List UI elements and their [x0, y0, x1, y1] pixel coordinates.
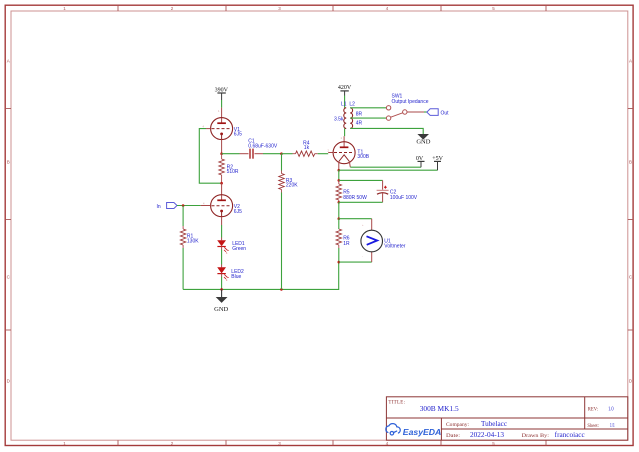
svg-text:100uF 100V: 100uF 100V	[390, 195, 418, 201]
voltmeter U1	[361, 230, 383, 252]
svg-text:GND: GND	[416, 139, 430, 146]
wire R4 to T1 grid	[318, 153, 329, 155]
wire V1 cathode to C1	[222, 153, 240, 155]
pin T1 filament right	[348, 162, 351, 168]
label R4 1k	[303, 141, 310, 152]
pin V2 cathode	[221, 217, 223, 225]
triode T1 300B	[333, 142, 355, 164]
svg-text:0.68uF-630V: 0.68uF-630V	[248, 143, 278, 149]
node junction R6 top	[338, 217, 341, 220]
label V2 6J5	[234, 204, 242, 215]
wire R5 bottom to C2 bottom	[339, 201, 383, 203]
wire SW1 pole to Out	[407, 111, 424, 113]
resistor R3	[279, 171, 284, 193]
label LED1 Green	[232, 241, 246, 252]
svg-text:Company:: Company:	[446, 422, 469, 428]
svg-text:3.5k: 3.5k	[334, 116, 344, 122]
svg-text:REV:: REV:	[588, 406, 599, 412]
node junction R2 bottom	[220, 182, 223, 185]
svg-text:B: B	[7, 160, 10, 165]
capacitor C2	[377, 180, 389, 202]
svg-text:L2: L2	[349, 102, 355, 108]
pin T1 grid	[328, 152, 333, 154]
frame column numbers top	[63, 6, 495, 11]
wire R6 bottom	[338, 248, 340, 262]
label C1 0.68uF-630V	[248, 139, 278, 150]
wire 390V to V1 plate	[221, 100, 223, 108]
frame ticks top	[118, 5, 546, 11]
svg-text:L1: L1	[341, 102, 347, 108]
svg-text:Tubelacc: Tubelacc	[481, 420, 507, 428]
wire R5 top to C2 top	[339, 179, 383, 181]
power flag 390V	[215, 87, 229, 100]
wire secondary top tap to SW1	[350, 107, 386, 109]
wire LED1 to LED2	[221, 250, 223, 265]
pin T1 filament left	[338, 162, 340, 171]
triode V2	[211, 195, 233, 217]
svg-text:420V: 420V	[338, 85, 352, 91]
label SW1 Output Ipedance	[392, 94, 429, 105]
svg-text:1.0: 1.0	[608, 407, 614, 413]
wire node to R4	[282, 153, 293, 155]
wire V2 cathode to LED1	[221, 225, 223, 238]
node junction rail GND	[220, 288, 223, 291]
wire R5 bottom down to R6	[338, 202, 340, 218]
svg-text:300B MK1.5: 300B MK1.5	[420, 404, 459, 413]
wire 420V to transformer primary	[344, 96, 346, 108]
wire node to R3	[281, 154, 283, 171]
wire secondary bottom tap to GND	[350, 128, 423, 134]
node junction rail R3	[280, 288, 283, 291]
wire filament node down to R5	[338, 170, 340, 180]
power flag 0V	[416, 156, 425, 167]
wire V1 grid feedback	[199, 129, 220, 184]
svg-text:220K: 220K	[286, 182, 298, 188]
svg-text:1k: 1k	[304, 145, 310, 151]
wire LED2 to ground rail	[221, 277, 223, 290]
label LED2 Blue	[231, 269, 244, 280]
svg-text:B: B	[629, 160, 632, 165]
svg-text:In: In	[157, 204, 161, 210]
wire filament right to 0V	[350, 166, 421, 168]
wire R3 to ground rail	[281, 193, 283, 290]
pin U1 bottom	[371, 252, 373, 262]
pin V1 cathode	[221, 140, 223, 154]
svg-text:8R: 8R	[356, 112, 363, 118]
pin U1 top	[371, 219, 373, 231]
pin T1 plate	[343, 136, 345, 147]
wire In node down to R1	[182, 206, 184, 227]
wire ground rail	[183, 262, 339, 289]
wire filament left to +5V	[339, 169, 438, 171]
label T1 300B	[357, 150, 369, 160]
resistor R1	[180, 226, 185, 248]
wire C1 to node	[263, 153, 282, 155]
label R5 880R 50W	[343, 190, 367, 201]
label R3 220K	[286, 178, 298, 188]
power flag 420V	[338, 85, 352, 95]
label V1 6J5	[234, 127, 242, 137]
svg-text:A: A	[7, 59, 10, 64]
svg-text:Out: Out	[441, 110, 450, 116]
node junction C1/R3/R4	[280, 152, 283, 155]
svg-text:4R: 4R	[356, 121, 363, 127]
switch SW1	[386, 106, 407, 121]
node junction V1 cathode	[220, 152, 223, 155]
svg-text:A: A	[629, 59, 632, 64]
wire In to grid	[177, 205, 201, 207]
node junction R5 bottom	[338, 201, 341, 204]
svg-text:TITLE:: TITLE:	[388, 400, 405, 405]
wire transformer primary bottom to T1 plate	[344, 128, 346, 136]
svg-text:130K: 130K	[187, 238, 199, 244]
svg-text:2022-04-13: 2022-04-13	[470, 431, 505, 439]
svg-text:Voltmeter: Voltmeter	[384, 244, 405, 250]
wire R6 top to U1 top	[339, 218, 372, 220]
pin V2 plate	[221, 183, 223, 200]
node junction In	[182, 204, 185, 207]
svg-text:Output Ipedance: Output Ipedance	[392, 99, 429, 105]
svg-text:EasyEDA: EasyEDA	[403, 427, 442, 437]
resistor R4	[293, 151, 318, 156]
svg-text:Drawn By:: Drawn By:	[522, 433, 550, 439]
ground GND2	[416, 134, 430, 146]
resistor R5	[336, 180, 341, 202]
frame ticks right	[628, 109, 633, 331]
label R1 130K	[187, 233, 199, 244]
svg-text:880R 50W: 880R 50W	[343, 195, 367, 201]
label R2 510R	[227, 165, 239, 175]
wire secondary mid tap to SW1	[350, 117, 386, 119]
triode V1	[211, 118, 233, 140]
node junction R5 top	[338, 179, 341, 182]
svg-text:1/1: 1/1	[610, 423, 615, 429]
svg-text:6J5: 6J5	[234, 131, 242, 137]
frame ticks bottom	[118, 440, 546, 445]
title block box	[386, 397, 627, 440]
svg-text:Green: Green	[232, 246, 246, 252]
resistor R6	[336, 219, 341, 248]
label L1 L2	[341, 102, 355, 108]
frame row letters right	[629, 59, 633, 384]
pin V1 plate	[221, 108, 223, 124]
EasyEDA logo cloud	[386, 424, 400, 435]
svg-text:Date:: Date:	[446, 433, 461, 439]
wire R6 bottom to U1 bottom	[339, 261, 372, 263]
svg-text:Blue: Blue	[231, 274, 241, 280]
pin V2 grid	[201, 205, 211, 207]
frame row letters left	[7, 59, 11, 384]
node junction filament left	[338, 169, 341, 172]
power flag +5V	[432, 156, 443, 170]
svg-text:-: -	[362, 255, 363, 258]
svg-text:GND: GND	[214, 306, 228, 313]
LED1	[217, 238, 229, 254]
label R6 1R	[343, 236, 350, 247]
frame ticks left	[5, 109, 11, 331]
node junction R6 bottom	[338, 261, 341, 264]
svg-text:francoiacc: francoiacc	[555, 431, 585, 439]
capacitor C1	[240, 149, 264, 159]
label U1 Voltmeter	[384, 238, 405, 249]
port In	[157, 203, 178, 210]
svg-text:6J5: 6J5	[234, 209, 242, 215]
svg-text:Sheet:: Sheet:	[587, 423, 599, 429]
svg-text:510R: 510R	[227, 169, 239, 175]
transformer primary L1	[344, 108, 346, 129]
transformer secondary L2	[350, 108, 352, 129]
pin V1 grid	[206, 128, 211, 130]
LED2	[217, 265, 229, 281]
port Out	[427, 109, 449, 117]
resistor R2	[219, 154, 224, 184]
ground GND1	[214, 289, 228, 312]
label C2 100uF 100V	[390, 190, 418, 201]
wire R1 to ground rail	[182, 248, 184, 289]
svg-text:1R: 1R	[343, 241, 350, 247]
svg-text:300B: 300B	[357, 154, 369, 160]
frame column numbers bottom	[63, 441, 495, 446]
